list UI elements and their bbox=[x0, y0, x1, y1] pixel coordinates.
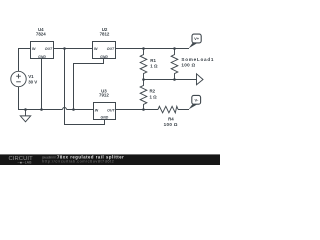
svg-text:SomeLoad1: SomeLoad1 bbox=[181, 57, 214, 62]
svg-text:GND: GND bbox=[100, 55, 108, 59]
wire U4 OUT to U2 IN bbox=[54, 48, 93, 50]
wire U2 OUT to V+ node bbox=[116, 48, 190, 50]
logo CircuitLab bbox=[9, 156, 34, 164]
svg-text:GND: GND bbox=[38, 55, 46, 59]
wire U4 GND to ground rail bbox=[41, 59, 43, 110]
node junction SomeLoad1 top bbox=[173, 47, 176, 50]
resistor SomeLoad1 bbox=[171, 49, 178, 80]
node junction SomeLoad1 bottom bbox=[173, 78, 176, 81]
wire R4 to V- node bbox=[178, 109, 189, 111]
wire node A vertical to U3 GND bbox=[65, 49, 105, 125]
voltage source V1 bbox=[11, 71, 26, 86]
svg-text:R1: R1 bbox=[150, 58, 156, 63]
op-amp U4 box 7824 bbox=[31, 42, 54, 59]
svg-text:7812: 7812 bbox=[100, 31, 110, 36]
wire ground rail hop over net bbox=[63, 108, 67, 110]
op-amp U2 box 7812 bbox=[93, 42, 116, 59]
op-amp U3 box 7912 bbox=[94, 103, 116, 120]
wire R1 bottom to flag out bbox=[144, 79, 197, 81]
net flag V+ bbox=[189, 34, 202, 48]
wire V1 bottom to ground rail bbox=[19, 87, 63, 110]
node junction R1 bottom bbox=[142, 78, 145, 81]
svg-text:OUT: OUT bbox=[107, 47, 115, 51]
svg-text:─■─LAB: ─■─LAB bbox=[17, 160, 33, 164]
net flag V- bbox=[189, 95, 201, 109]
svg-text:100 Ω: 100 Ω bbox=[164, 122, 178, 127]
node junction top A bbox=[63, 47, 66, 50]
resistor R4 bbox=[158, 106, 178, 113]
svg-text:R2: R2 bbox=[150, 89, 156, 94]
svg-text:7912: 7912 bbox=[99, 92, 109, 97]
node junction ground tap bbox=[24, 108, 27, 111]
node junction U2 GND rail bbox=[72, 108, 75, 111]
resistor R2 bbox=[140, 80, 147, 110]
watermark bar bbox=[0, 154, 220, 165]
svg-text:100 Ω: 100 Ω bbox=[181, 63, 195, 68]
svg-text:V1: V1 bbox=[28, 74, 34, 79]
svg-text:OUT: OUT bbox=[45, 47, 53, 51]
wire ground rail to U3 IN bbox=[67, 109, 94, 111]
watermark text line 1 bbox=[41, 154, 124, 163]
svg-text:7824: 7824 bbox=[36, 31, 46, 36]
node junction U4 GND rail bbox=[40, 108, 43, 111]
wire U3 OUT to R4 bbox=[116, 109, 159, 111]
net flag output triangle bbox=[197, 74, 204, 85]
svg-text:IN: IN bbox=[94, 47, 98, 51]
svg-text:http://circuitlab.com/c6uv8t7d: http://circuitlab.com/c6uv8t7d6t2 bbox=[42, 159, 114, 164]
ground bbox=[20, 110, 30, 122]
node junction R2 bottom bbox=[142, 108, 145, 111]
svg-text:V-: V- bbox=[195, 97, 199, 102]
svg-text:GND: GND bbox=[101, 116, 109, 120]
svg-text:30 V: 30 V bbox=[28, 79, 37, 84]
wire U2 GND to ground rail bbox=[74, 59, 104, 110]
svg-text:1 Ω: 1 Ω bbox=[150, 64, 158, 69]
svg-text:IN: IN bbox=[32, 47, 36, 51]
resistor R1 bbox=[140, 49, 147, 80]
svg-text:1 Ω: 1 Ω bbox=[150, 95, 158, 100]
voltage source V1 plus minus bbox=[16, 74, 21, 82]
svg-text:V+: V+ bbox=[194, 36, 200, 41]
svg-text:IN: IN bbox=[95, 108, 99, 112]
wire V1 top to U4 IN bbox=[19, 49, 31, 72]
svg-text:OUT: OUT bbox=[107, 108, 115, 112]
node junction R1 top bbox=[142, 47, 145, 50]
